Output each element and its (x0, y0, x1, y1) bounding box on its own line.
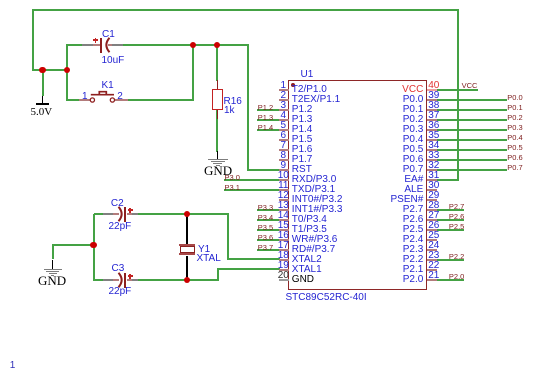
pin 19 name (292, 264, 322, 275)
pin 18 number (271, 250, 295, 261)
pin 15 number (271, 220, 295, 231)
node P3.1 (225, 184, 240, 192)
wire (216, 45, 218, 81)
wire P3.1 (224, 189, 280, 191)
label C3 (112, 263, 125, 274)
IC U1 body (288, 80, 428, 290)
pin 31 number (422, 170, 446, 181)
wire (217, 269, 219, 281)
pin 40 number (422, 80, 446, 91)
label 10uF (102, 55, 125, 66)
pin 11 TXD/P3.1 stub (279, 189, 289, 191)
pin 28 name (363, 204, 423, 215)
node P1.2 (258, 104, 273, 112)
label C1 (102, 29, 115, 40)
node P0.1 (507, 104, 522, 112)
wire top rail (32, 9, 459, 11)
wire (227, 214, 229, 260)
wire (32, 69, 68, 71)
pin 35 name (363, 134, 423, 145)
pin 38 name (363, 104, 423, 115)
pin 22 number (422, 260, 446, 271)
pin 13 name (292, 204, 343, 215)
pin 16 WR#/P3.6 stub (279, 239, 289, 241)
wire P3.0 (224, 179, 280, 181)
wire (192, 44, 249, 46)
label Y1 (198, 244, 210, 255)
pin 12 number (271, 190, 295, 201)
pin 3 P1.2 stub (279, 109, 289, 111)
pin 26 P2.5 stub (427, 229, 437, 231)
pin 9 RST stub (279, 169, 289, 171)
wire (52, 244, 94, 246)
node P2.7 (449, 203, 464, 211)
pin 37 name (363, 114, 423, 125)
pin 1 T2/P1.0 stub (279, 89, 289, 91)
label R16 (224, 96, 242, 107)
wire (66, 45, 68, 102)
capacitor C2 (102, 197, 162, 237)
wire P2.5 (437, 229, 464, 231)
pin 17 RD#/P3.7 stub (279, 249, 289, 251)
capacitor C3 (102, 263, 162, 303)
node P1.3 (258, 114, 273, 122)
pin 21 number (422, 270, 446, 281)
pin 7 name (292, 144, 313, 155)
wire P3.3 (257, 209, 280, 211)
pin 30 number (422, 180, 446, 191)
pin 31 EA# stub (427, 179, 437, 181)
wire (247, 45, 249, 171)
node VCC (462, 82, 478, 90)
ground (205, 151, 231, 179)
wire P0.2 (437, 119, 508, 121)
switch K1 (79, 88, 129, 104)
pin 27 P2.6 stub (427, 219, 437, 221)
pin 18 XTAL2 stub (279, 259, 289, 261)
node P3.3 (258, 204, 273, 212)
pin 27 name (363, 214, 423, 225)
wire EA# (437, 179, 458, 181)
pin 28 P2.7 stub (427, 209, 437, 211)
pin 21 P2.0 stub (427, 279, 437, 281)
pin 1 number (271, 80, 295, 91)
pin 5 P1.4 stub (279, 129, 289, 131)
pin 33 number (422, 150, 446, 161)
pin 6 P1.5 stub (279, 139, 289, 141)
capacitor C1 (82, 28, 142, 68)
wire (187, 279, 219, 281)
wire (93, 214, 95, 281)
junction (184, 211, 190, 217)
pin 2 name (292, 94, 340, 105)
pin 35 P0.4 stub (427, 139, 437, 141)
pin 16 name (292, 234, 338, 245)
sheet number (10, 360, 16, 371)
wire (66, 99, 80, 101)
pin 32 name (363, 164, 423, 175)
label C2 (111, 198, 124, 209)
pin 8 P1.7 stub (279, 159, 289, 161)
pin 1 label (82, 91, 88, 102)
pin 36 name (363, 124, 423, 135)
pin 15 T1/P3.5 stub (279, 229, 289, 231)
pin 32 P0.7 stub (427, 169, 437, 171)
wire P3.6 (257, 239, 280, 241)
pin 1 name (292, 84, 327, 95)
pin 11 number (271, 180, 295, 191)
wire P0.5 (437, 149, 508, 151)
node P3.4 (258, 214, 273, 222)
junction (190, 42, 196, 48)
label U1 (301, 69, 314, 80)
pin 29 PSEN# stub (427, 199, 437, 201)
node P0.0 (507, 94, 522, 102)
pin 8 number (271, 150, 295, 161)
node P0.6 (507, 154, 522, 162)
pin 10 RXD/P3.0 stub (279, 179, 289, 181)
pin 4 number (271, 110, 295, 121)
pin 20 number (271, 270, 295, 281)
pin 40 VCC stub (427, 89, 437, 91)
wire P3.5 (257, 229, 280, 231)
pin 33 P0.6 stub (427, 159, 437, 161)
wire EA# (457, 10, 459, 181)
pin 5 name (292, 124, 313, 135)
pin 17 name (292, 244, 335, 255)
pin 23 P2.2 stub (427, 259, 437, 261)
pin 39 number (422, 90, 446, 101)
node P0.7 (507, 164, 522, 172)
pin 6 name (292, 134, 313, 145)
wire (126, 99, 194, 101)
wire P2.6 (437, 219, 464, 221)
pin 34 name (363, 144, 423, 155)
pin 5 number (271, 120, 295, 131)
pin 19 XTAL1 stub (279, 269, 289, 271)
wire P0.3 (437, 129, 508, 131)
pin 14 number (271, 210, 295, 221)
wire P0.0 (437, 99, 508, 101)
wire P0.7 (437, 169, 508, 171)
wire P3.4 (257, 219, 280, 221)
wire P1.3 (257, 119, 280, 121)
pin 21 name (363, 274, 423, 285)
pin 11 name (292, 184, 335, 195)
pin 4 name (292, 114, 313, 125)
pin 12 INT0#/P3.2 stub (279, 199, 289, 201)
pin 7 number (271, 140, 295, 151)
pin 35 number (422, 130, 446, 141)
node P0.2 (507, 114, 522, 122)
pin 38 P0.1 stub (427, 109, 437, 111)
pin 10 name (292, 174, 336, 185)
wire P1.4 (257, 129, 280, 131)
wire P2.0 (437, 279, 464, 281)
pin 2 T2EX/P1.1 stub (279, 99, 289, 101)
node P3.0 (225, 174, 240, 182)
pin 25 P2.4 stub (427, 239, 437, 241)
junction (90, 242, 96, 248)
pin 24 P2.3 stub (427, 249, 437, 251)
pin 14 name (292, 214, 327, 225)
pin 14 T0/P3.4 stub (279, 219, 289, 221)
wire (138, 213, 188, 215)
pin 8 name (292, 154, 313, 165)
node P3.5 (258, 224, 273, 232)
pin 13 number (271, 200, 295, 211)
wire P0.4 (437, 139, 508, 141)
wire P2.2 (437, 259, 464, 261)
wire VCC (437, 89, 479, 91)
junction (214, 42, 220, 48)
label XTAL (197, 253, 221, 264)
wire P3.7 (257, 249, 280, 251)
label STC89C52RC-40I (286, 292, 367, 303)
pin 39 P0.0 stub (427, 99, 437, 101)
wire (32, 10, 34, 71)
wire (187, 213, 229, 215)
pin 20 GND stub (279, 279, 289, 281)
node P2.0 (449, 273, 464, 281)
crystal Y1 (178, 214, 198, 282)
pin 25 number (422, 230, 446, 241)
node P1.4 (258, 124, 273, 132)
pin 36 P0.3 stub (427, 129, 437, 131)
pin 37 number (422, 110, 446, 121)
pin 38 number (422, 100, 446, 111)
pin 23 name (363, 254, 423, 265)
label K1 (102, 80, 114, 91)
node P3.6 (258, 234, 273, 242)
pin 30 name (363, 184, 423, 195)
pin 37 P0.2 stub (427, 119, 437, 121)
pin 3 name (292, 104, 313, 115)
pin 39 name (363, 94, 423, 105)
pin 4 P1.3 stub (279, 119, 289, 121)
pin 9 name (292, 164, 312, 175)
junction (64, 67, 70, 73)
pin 6 number (271, 130, 295, 141)
pin 30 ALE stub (427, 189, 437, 191)
pin 17 number (271, 240, 295, 251)
node P3.7 (258, 244, 273, 252)
label 1k (224, 105, 235, 116)
pin 22 P2.1 stub (427, 269, 437, 271)
node P0.5 (507, 144, 522, 152)
node P2.5 (449, 223, 464, 231)
wire (122, 44, 193, 46)
pin 13 INT1#/P3.3 stub (279, 209, 289, 211)
power 5.0V (42, 70, 44, 96)
pin 36 number (422, 120, 446, 131)
wire (52, 245, 54, 260)
pin 2 label (117, 91, 123, 102)
pin 2 number (271, 90, 295, 101)
wire RST to pin 9 (247, 169, 280, 171)
junction (39, 67, 45, 73)
pin 29 number (422, 190, 446, 201)
label 22pF (109, 221, 132, 232)
node P0.3 (507, 124, 522, 132)
pin 27 number (422, 210, 446, 221)
pin 10 number (271, 170, 295, 181)
pin 9 number (271, 160, 295, 171)
resistor R16 (211, 80, 225, 120)
node P2.2 (449, 253, 464, 261)
pin 32 number (422, 160, 446, 171)
pin 12 name (292, 194, 343, 205)
pin 15 name (292, 224, 327, 235)
label 22pF (109, 286, 132, 297)
wire (94, 213, 104, 215)
node P2.6 (449, 213, 464, 221)
wire P1.2 (257, 109, 280, 111)
wire (216, 110, 218, 152)
node P0.4 (507, 134, 522, 142)
wire (138, 279, 189, 281)
pin 26 name (363, 224, 423, 235)
pin 33 name (363, 154, 423, 165)
pin 20 name (292, 274, 314, 285)
pin 19 number (271, 260, 295, 271)
pin 22 name (363, 264, 423, 275)
pin 34 number (422, 140, 446, 151)
pin 24 number (422, 240, 446, 251)
pin 18 name (292, 254, 322, 265)
wire P2.7 (437, 209, 464, 211)
pin 1 marker dot (291, 83, 295, 87)
pin 7 P1.6 stub (279, 149, 289, 151)
wire XTAL1 (217, 268, 280, 270)
wire (94, 279, 104, 281)
wire (192, 45, 194, 100)
pin 34 P0.5 stub (427, 149, 437, 151)
wire P0.1 (437, 109, 508, 111)
pin 23 number (422, 250, 446, 261)
pin 29 name (363, 194, 423, 205)
pin 26 number (422, 220, 446, 231)
wire P0.6 (437, 159, 508, 161)
pin 40 name (363, 84, 423, 95)
pin 16 number (271, 230, 295, 241)
wire XTAL2 (227, 258, 280, 260)
pin 28 number (422, 200, 446, 211)
junction (184, 277, 190, 283)
pin 25 name (363, 234, 423, 245)
pin 3 number (271, 100, 295, 111)
pin 24 name (363, 244, 423, 255)
wire (66, 44, 83, 46)
ground (40, 260, 66, 290)
pin 31 name (363, 174, 423, 185)
